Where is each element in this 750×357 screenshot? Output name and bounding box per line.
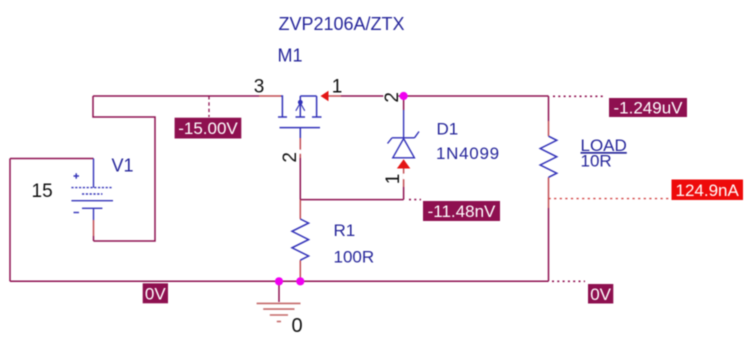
svg-text:-11.48nV: -11.48nV <box>428 202 496 221</box>
svg-text:V1: V1 <box>112 155 134 175</box>
svg-text:-1.249uV: -1.249uV <box>614 98 684 117</box>
svg-text:3: 3 <box>254 77 265 98</box>
svg-text:124.9nA: 124.9nA <box>676 181 740 200</box>
svg-text:M1: M1 <box>278 45 303 65</box>
svg-text:D1: D1 <box>437 119 459 138</box>
svg-text:0V: 0V <box>145 284 166 303</box>
svg-text:100R: 100R <box>334 247 375 266</box>
svg-text:R1: R1 <box>334 221 356 240</box>
svg-text:1: 1 <box>332 77 343 98</box>
svg-text:-15.00V: -15.00V <box>178 119 238 138</box>
svg-text:2: 2 <box>382 92 403 103</box>
svg-text:1: 1 <box>383 174 404 185</box>
svg-text:10R: 10R <box>581 152 612 171</box>
svg-text:0: 0 <box>292 315 303 337</box>
svg-text:15: 15 <box>32 181 53 202</box>
svg-text:2: 2 <box>280 152 301 163</box>
svg-text:1N4099: 1N4099 <box>436 144 500 163</box>
svg-text:ZVP2106A/ZTX: ZVP2106A/ZTX <box>279 14 405 34</box>
svg-text:0V: 0V <box>590 285 611 304</box>
